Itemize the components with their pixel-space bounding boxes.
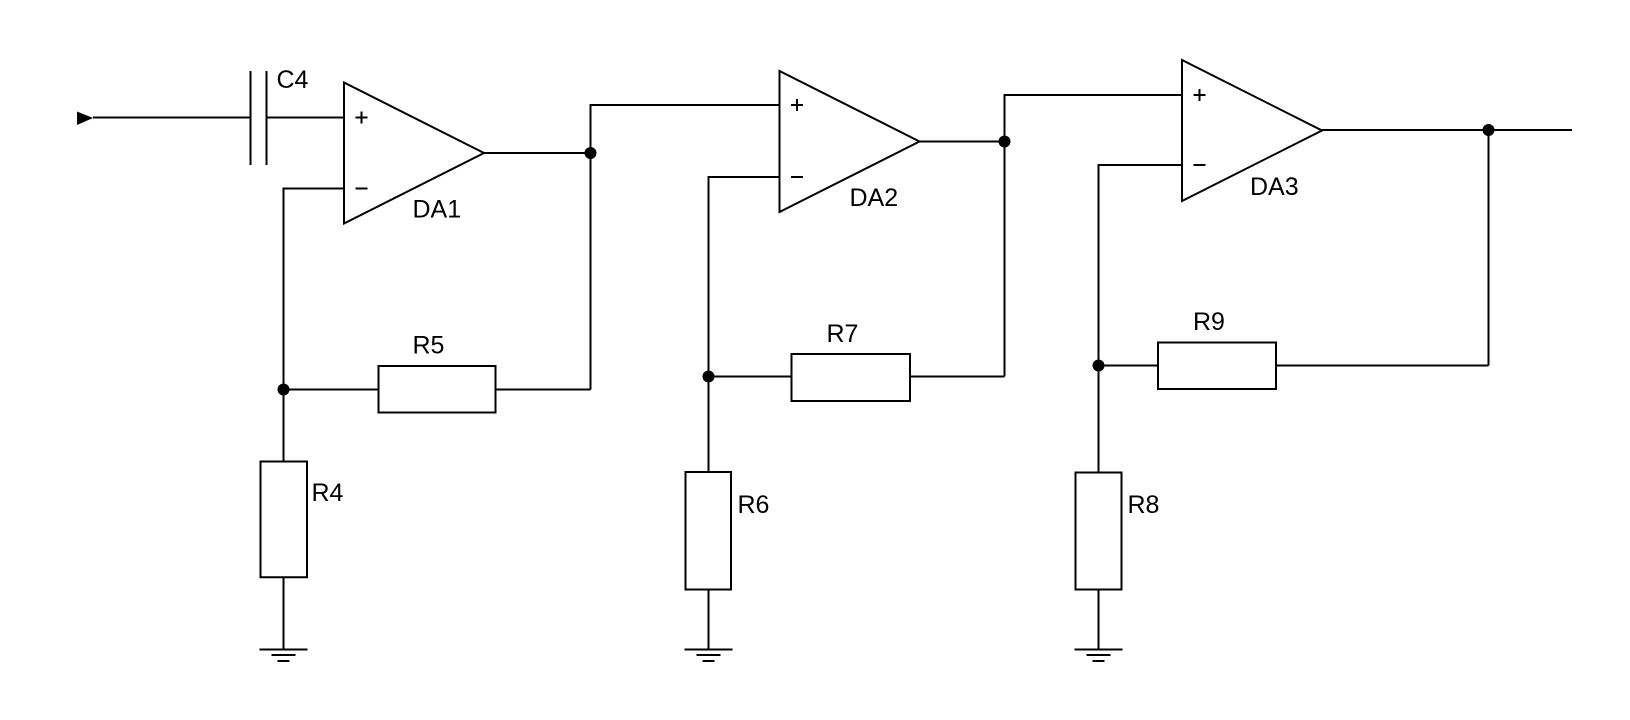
svg-text:R4: R4	[312, 479, 344, 507]
svg-text:R7: R7	[827, 320, 859, 348]
op-amp DA3	[1182, 60, 1322, 201]
DA3 plus sign	[1194, 89, 1206, 101]
node DA1 output	[585, 147, 597, 159]
node DA3 output	[1483, 124, 1495, 136]
node DA2 output	[999, 136, 1011, 148]
resistor R5	[379, 366, 496, 413]
wire DA3 output	[1322, 129, 1572, 131]
svg-text:R9: R9	[1193, 308, 1225, 336]
ground GND1	[260, 650, 308, 662]
wire DA1 output vertical	[590, 105, 592, 390]
wire R7 to output vertical	[911, 376, 1005, 378]
wire R8 to ground	[1098, 591, 1100, 650]
DA1 minus sign	[356, 188, 368, 190]
wire DA3 feedback vertical	[1098, 164, 1100, 366]
wire DA1 feedback vertical	[283, 188, 285, 390]
wire R4 to ground	[283, 578, 285, 650]
resistor R6	[686, 472, 732, 590]
svg-text:R8: R8	[1128, 491, 1160, 519]
DA1 plus sign	[356, 112, 368, 124]
svg-text:R6: R6	[738, 491, 770, 519]
DA2 minus sign	[791, 176, 803, 178]
wire DA3 inverting input	[1099, 164, 1183, 166]
wire R9 to output vertical	[1277, 365, 1489, 367]
resistor R7	[792, 354, 911, 401]
wire DA1 output	[484, 152, 591, 154]
capacitor C4 left plate	[250, 71, 252, 165]
wire to DA3 noninverting input	[1004, 94, 1183, 96]
wire R5 to output vertical	[497, 389, 591, 391]
node junction R8 R9	[1093, 360, 1105, 372]
wire junction to R7	[709, 376, 791, 378]
wire input to C4	[93, 117, 250, 119]
wire DA1 inverting input	[284, 188, 345, 190]
wire junction to R4	[283, 390, 285, 461]
svg-text:R5: R5	[413, 332, 445, 360]
input terminal arrow	[77, 112, 93, 126]
wire to DA2 noninverting input	[590, 104, 780, 106]
wire DA2 inverting input	[709, 176, 780, 178]
resistor R9	[1158, 343, 1276, 390]
svg-text:DA3: DA3	[1250, 173, 1299, 201]
DA2 plus sign	[791, 99, 803, 111]
wire junction to R8	[1098, 366, 1100, 472]
wire DA2 output	[920, 141, 1005, 143]
wire DA2 feedback vertical	[708, 176, 710, 377]
node junction R4 R5	[278, 384, 290, 396]
resistor R8	[1076, 473, 1122, 590]
wire junction to R9	[1099, 365, 1158, 367]
ground GND2	[685, 650, 733, 662]
wire DA2 output vertical	[1004, 95, 1006, 377]
ground GND3	[1075, 650, 1123, 662]
svg-text:DA2: DA2	[850, 184, 899, 212]
wire output vertical	[1488, 130, 1490, 366]
svg-text:C4: C4	[277, 66, 309, 94]
svg-text:DA1: DA1	[413, 196, 462, 224]
op-amp DA2	[780, 71, 920, 212]
resistor R4	[261, 462, 308, 578]
op-amp DA1	[344, 83, 484, 224]
wire C4 to DA1 noninverting input	[268, 117, 345, 119]
node junction R6 R7	[703, 371, 715, 383]
wire junction to R5	[284, 389, 378, 391]
capacitor C4 right plate	[266, 71, 268, 165]
DA3 minus sign	[1194, 164, 1206, 166]
wire junction to R6	[708, 377, 710, 472]
wire R6 to ground	[708, 591, 710, 650]
